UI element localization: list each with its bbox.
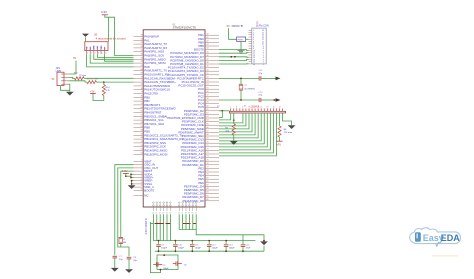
svg-text:26: 26	[141, 46, 143, 48]
svg-text:67: 67	[207, 131, 209, 133]
svg-text:48: 48	[141, 137, 143, 139]
svg-text:29: 29	[141, 50, 143, 52]
svg-text:46: 46	[207, 55, 209, 57]
svg-text:51: 51	[207, 73, 209, 75]
svg-text:54: 54	[207, 84, 209, 86]
svg-text:57: 57	[207, 95, 209, 97]
svg-text:86: 86	[207, 199, 209, 201]
svg-text:72: 72	[207, 149, 209, 151]
svg-text:R15 22 ohm: R15 22 ohm	[87, 78, 99, 80]
svg-text:68: 68	[141, 69, 143, 71]
svg-text:67: 67	[141, 65, 143, 67]
svg-text:3.3V: 3.3V	[101, 10, 107, 14]
svg-text:72: 72	[141, 84, 143, 86]
svg-text:91: 91	[141, 114, 143, 116]
svg-text:81: 81	[207, 181, 209, 183]
svg-text:104pF: 104pF	[178, 247, 185, 249]
svg-text:3: 3	[236, 107, 237, 109]
svg-text:3: 3	[94, 53, 95, 55]
svg-text:10: 10	[141, 172, 143, 174]
svg-text:BOOT0: BOOT0	[144, 188, 154, 192]
svg-text:4 recommend for sd card: 4 recommend for sd card	[96, 36, 126, 40]
svg-text:104pF: 104pF	[161, 247, 168, 249]
svg-text:11: 11	[141, 176, 143, 178]
svg-text:PWR: PWR	[238, 39, 244, 41]
svg-text:24: 24	[141, 38, 143, 40]
svg-text:64: 64	[207, 120, 209, 122]
svg-text:104pF: 104pF	[229, 247, 236, 249]
svg-text:6: 6	[142, 160, 143, 162]
svg-text:32: 32	[141, 61, 143, 63]
svg-text:14: 14	[141, 185, 143, 187]
svg-text:96: 96	[141, 130, 143, 132]
svg-text:48: 48	[207, 62, 209, 64]
svg-text:95: 95	[141, 126, 143, 128]
svg-text:32.768KHz: 32.768KHz	[244, 88, 255, 90]
svg-text:7: 7	[142, 163, 143, 165]
svg-text:+3V: +3V	[276, 143, 281, 147]
svg-text:52: 52	[141, 145, 143, 147]
svg-text:1: 1	[230, 107, 231, 109]
svg-text:78: 78	[207, 170, 209, 172]
svg-text:41: 41	[207, 37, 209, 39]
svg-text:9: 9	[254, 107, 255, 109]
svg-text:71: 71	[207, 145, 209, 147]
svg-text:17: 17	[279, 107, 281, 109]
svg-text:50: 50	[207, 69, 209, 71]
svg-text:68: 68	[207, 134, 209, 136]
svg-text:VDD: VDD	[101, 45, 103, 50]
svg-text:9: 9	[142, 169, 143, 171]
svg-text:49: 49	[207, 66, 209, 68]
svg-text:STM32F103VCT6: STM32F103VCT6	[173, 26, 197, 30]
svg-text:5V: 5V	[227, 25, 230, 28]
svg-text:7: 7	[248, 107, 249, 109]
svg-text:104pF: 104pF	[195, 247, 202, 249]
svg-text:69: 69	[207, 138, 209, 140]
svg-text:5V: 5V	[73, 58, 76, 60]
svg-text:92: 92	[141, 118, 143, 120]
svg-text:22 ohm: 22 ohm	[79, 75, 86, 77]
svg-text:25: 25	[141, 42, 143, 44]
svg-text:15: 15	[141, 188, 143, 190]
svg-text:13: 13	[267, 107, 269, 109]
svg-text:79: 79	[207, 174, 209, 176]
svg-text:52: 52	[207, 77, 209, 79]
svg-text:58: 58	[207, 98, 209, 100]
svg-text:73: 73	[207, 152, 209, 154]
svg-text:13: 13	[141, 182, 143, 184]
svg-text:5: 5	[102, 53, 103, 55]
svg-text:8: 8	[142, 166, 143, 168]
svg-text:56: 56	[207, 91, 209, 93]
svg-text:U5: U5	[94, 33, 98, 37]
svg-text:40: 40	[207, 33, 209, 35]
svg-text:65: 65	[207, 123, 209, 125]
svg-text:NC: NC	[144, 194, 148, 198]
svg-text:61: 61	[207, 109, 209, 111]
svg-text:120 ohm: 120 ohm	[284, 132, 293, 134]
svg-text:47: 47	[207, 59, 209, 61]
svg-text:77: 77	[207, 167, 209, 169]
svg-text:70: 70	[141, 76, 143, 78]
svg-text:76: 76	[141, 88, 143, 90]
svg-text:59: 59	[207, 102, 209, 104]
svg-text:82: 82	[207, 185, 209, 187]
svg-text:42: 42	[207, 41, 209, 43]
svg-text:93: 93	[141, 122, 143, 124]
svg-text:77: 77	[141, 92, 143, 94]
svg-text:5: 5	[242, 107, 243, 109]
svg-text:62: 62	[207, 113, 209, 115]
svg-text:6: 6	[105, 53, 106, 55]
svg-text:54: 54	[141, 152, 143, 154]
svg-text:83: 83	[207, 188, 209, 190]
svg-text:45: 45	[207, 51, 209, 53]
svg-text:69: 69	[141, 73, 143, 75]
svg-text:70: 70	[207, 141, 209, 143]
svg-text:EDA: EDA	[441, 233, 461, 243]
svg-text:4: 4	[98, 53, 99, 55]
svg-text:12: 12	[141, 179, 143, 181]
svg-text:PB15/SPI2_MOSI: PB15/SPI2_MOSI	[144, 152, 167, 156]
svg-text:75: 75	[207, 159, 209, 161]
svg-text:11: 11	[260, 107, 262, 109]
svg-text:GND: GND	[94, 45, 96, 50]
svg-text:53: 53	[207, 80, 209, 82]
svg-text:104pF: 104pF	[212, 247, 219, 249]
svg-text:66: 66	[207, 127, 209, 129]
svg-text:53: 53	[141, 149, 143, 151]
svg-text:60: 60	[207, 105, 209, 107]
svg-text:16: 16	[253, 64, 255, 66]
svg-text:3.3V FROM 'A': 3.3V FROM 'A'	[145, 217, 148, 234]
svg-text:44: 44	[207, 48, 209, 50]
svg-text:63: 63	[207, 116, 209, 118]
svg-text:23: 23	[141, 35, 143, 37]
svg-text:16 Pin CON: 16 Pin CON	[256, 25, 269, 28]
svg-text:89: 89	[141, 107, 143, 109]
svg-text:71: 71	[141, 80, 143, 82]
svg-text:8M: 8M	[123, 242, 126, 244]
svg-text:1: 1	[263, 64, 264, 66]
svg-text:43: 43	[207, 44, 209, 46]
svg-text:84: 84	[207, 192, 209, 194]
svg-text:47uF: 47uF	[246, 247, 251, 249]
svg-text:35: 35	[141, 95, 143, 97]
svg-text:36: 36	[141, 99, 143, 101]
svg-text:85: 85	[207, 195, 209, 197]
svg-text:90: 90	[141, 111, 143, 113]
svg-text:5V: 5V	[52, 79, 55, 81]
svg-text:15: 15	[273, 107, 275, 109]
svg-text:104pF: 104pF	[163, 268, 170, 270]
svg-text:80: 80	[207, 177, 209, 179]
svg-text:76: 76	[207, 163, 209, 165]
svg-text:55: 55	[207, 87, 209, 89]
svg-text:31: 31	[141, 57, 143, 59]
svg-text:30: 30	[141, 54, 143, 56]
svg-text:FROM 'B': FROM 'B'	[232, 24, 244, 28]
svg-text:1: 1	[87, 53, 88, 55]
svg-text:74: 74	[207, 156, 209, 158]
svg-text:2: 2	[91, 53, 92, 55]
svg-text:37: 37	[141, 103, 143, 105]
svg-text:51: 51	[141, 141, 143, 143]
svg-text:47: 47	[141, 133, 143, 135]
